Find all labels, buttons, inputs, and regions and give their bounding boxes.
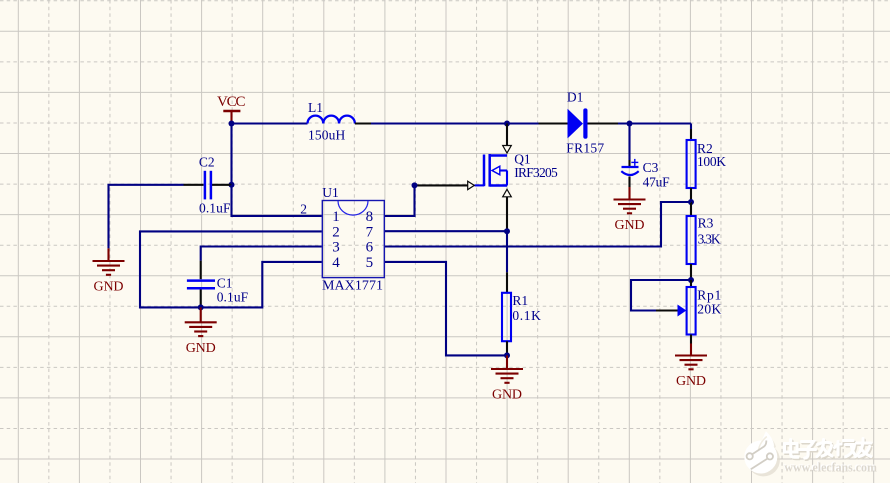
R2 bottom lead (690, 188, 692, 202)
Q1 source arrow (503, 189, 512, 197)
watermark text 发 (818, 441, 833, 458)
junction R3/Rp1 node (688, 277, 694, 283)
junction C1 bottom / ground net (198, 304, 204, 310)
Rp1 bottom lead (690, 335, 692, 344)
ground GND under C3 (628, 187, 630, 200)
wire VCC down to C2 node (230, 124, 232, 185)
C3 top pin lead (628, 160, 630, 166)
svg-text:C3: C3 (643, 160, 659, 175)
wire L1 to D1 anode (371, 122, 539, 124)
R1 top lead (506, 272, 508, 293)
power VCC (217, 94, 246, 123)
svg-text:Rp1: Rp1 (697, 288, 721, 303)
svg-text:GND: GND (676, 374, 706, 389)
watermark logo (744, 431, 780, 476)
wire U1 pin 7 to Q1 source (384, 230, 507, 232)
C2 left pin lead (184, 184, 204, 186)
wire output node down to R2 (690, 124, 692, 130)
wire C2 node to U1 pin 1 (232, 185, 322, 216)
watermark text 友 (857, 440, 873, 458)
wire C2 left to GND drop (109, 185, 184, 249)
transistor Q1 drain lead (506, 124, 508, 146)
svg-text:4: 4 (332, 255, 340, 271)
svg-text:7: 7 (366, 225, 374, 241)
wire D1 to output node (618, 122, 691, 124)
ground GND under R1 (506, 355, 508, 369)
svg-text:GND: GND (94, 280, 124, 295)
svg-text:L1: L1 (308, 100, 323, 115)
Rp1 wiper arrow (678, 305, 687, 317)
wire VCC rail to L1 (232, 122, 308, 124)
potentiometer Rp1 (687, 287, 696, 335)
C2 right pin lead (212, 184, 232, 186)
junction VCC / C2 (229, 182, 235, 188)
svg-text:GND: GND (186, 341, 216, 356)
wire U1 pin 3 to C1 top (201, 247, 322, 261)
svg-text:0.1uF: 0.1uF (199, 200, 231, 215)
svg-text:R1: R1 (512, 293, 528, 308)
svg-text:0.1uF: 0.1uF (217, 290, 249, 305)
svg-text:MAX1771: MAX1771 (322, 279, 383, 294)
R1 bottom lead (506, 341, 508, 355)
watermark text 烧 (836, 442, 858, 458)
ground GND under Rp1 (690, 344, 692, 356)
svg-text:GND: GND (492, 388, 522, 403)
junction at gate wire corner (412, 182, 418, 188)
Rp1 top lead (690, 280, 692, 287)
svg-text:100K: 100K (697, 154, 726, 169)
svg-text:C2: C2 (199, 155, 215, 170)
L1 right pin lead (355, 122, 371, 124)
Q1 drain arrow (503, 146, 512, 154)
diode D1 cathode lead (588, 122, 619, 124)
wire output node down to C3 (628, 124, 630, 161)
junction at Q1 drain / rail (504, 121, 510, 127)
svg-text:6: 6 (366, 240, 374, 256)
svg-text:R3: R3 (698, 216, 714, 231)
R3 bottom lead (690, 264, 692, 280)
junction Q1 source / R1 (504, 228, 510, 234)
diode D1 (568, 108, 588, 138)
junction R2/R3 feedback node (688, 199, 694, 205)
svg-text:www.elecfans.com: www.elecfans.com (784, 459, 877, 474)
transistor Q1 symbol (475, 154, 508, 187)
R3 top lead (690, 202, 692, 216)
svg-text:20K: 20K (697, 301, 721, 316)
svg-text:1: 1 (332, 209, 340, 225)
Q1 gate arrow (468, 181, 475, 189)
svg-text:GND: GND (615, 218, 645, 233)
svg-text:IRF3205: IRF3205 (514, 165, 558, 180)
svg-text:0.1K: 0.1K (512, 308, 541, 323)
wire Rp1 top terminal loop to wiper (631, 280, 691, 311)
svg-text:5: 5 (366, 255, 374, 271)
svg-text:2: 2 (332, 225, 340, 241)
wire feedback node to U1 pin 6 (384, 202, 691, 247)
C3 bottom pin lead (628, 177, 630, 188)
wire U1 pin 8 to Q1 gate (384, 185, 414, 216)
C1 top pin lead (200, 261, 202, 280)
svg-text:C1: C1 (217, 276, 233, 291)
R2 top lead (690, 129, 692, 140)
svg-text:3: 3 (332, 240, 340, 256)
Q1 gate lead (416, 184, 468, 186)
resistor R1 (502, 293, 511, 341)
junction at output node / C3 (627, 121, 633, 127)
junction R1 bottom / GND (504, 352, 510, 358)
watermark text 电 (786, 441, 799, 459)
wire source node down to R1 (506, 231, 508, 272)
svg-text:47uF: 47uF (643, 175, 670, 190)
svg-text:2: 2 (300, 201, 307, 216)
capacitor C2 (205, 171, 211, 200)
IC U1 MAX1771 body (322, 201, 384, 278)
junction at VCC feed (229, 121, 235, 127)
inductor L1 (308, 116, 355, 124)
capacitor C1 (187, 281, 215, 289)
Rp1 wiper pin lead (656, 309, 678, 311)
svg-text:150uH: 150uH (308, 128, 346, 143)
svg-text:D1: D1 (567, 90, 584, 105)
watermark site text (783, 458, 877, 474)
resistor R3 (687, 216, 696, 264)
resistor R2 (687, 140, 696, 188)
wire U1 pin 2 and pin 4 to C1 ground net (140, 231, 322, 307)
capacitor C3 polarized (621, 159, 638, 175)
svg-text:U1: U1 (322, 185, 339, 200)
svg-text:VCC: VCC (217, 94, 246, 110)
ground GND under C1 (200, 307, 202, 322)
C1 bottom pin lead (200, 290, 202, 308)
svg-text:8: 8 (366, 209, 374, 225)
diode D1 anode lead (539, 122, 569, 124)
Q1 source lead (506, 197, 508, 231)
svg-text:FR157: FR157 (566, 141, 604, 156)
ground GND left of C2 (107, 248, 109, 261)
watermark text 子 (801, 443, 817, 460)
svg-text:3.3K: 3.3K (698, 231, 721, 246)
wire U1 pin 5 to R1 bottom (384, 262, 507, 356)
